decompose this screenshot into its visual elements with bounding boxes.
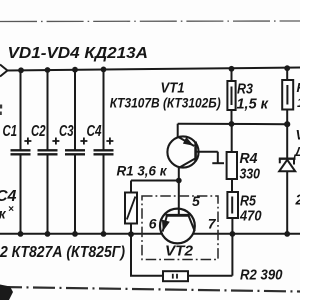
svg-text:6: 6	[149, 216, 157, 232]
svg-text:470: 470	[239, 208, 262, 225]
svg-text:1: 1	[297, 95, 300, 110]
svg-text:VD1-VD4 КД213А: VD1-VD4 КД213А	[8, 45, 149, 62]
svg-text:С4: С4	[87, 123, 102, 140]
svg-text:С2: С2	[31, 123, 46, 140]
svg-text:VT2: VT2	[165, 243, 194, 260]
svg-text:R1 3,6 к: R1 3,6 к	[117, 163, 168, 179]
svg-text:КТ3107В (КТ3102Б): КТ3107В (КТ3102Б)	[110, 95, 221, 111]
svg-text:С3: С3	[59, 123, 74, 140]
svg-text:R4: R4	[240, 150, 259, 167]
svg-text:к: к	[0, 206, 7, 222]
svg-text:С4: С4	[0, 188, 17, 205]
svg-text:5: 5	[192, 193, 200, 209]
svg-text:×: ×	[8, 204, 14, 215]
svg-text:R: R	[297, 80, 301, 95]
svg-text:2 КТ827А (КТ825Г): 2 КТ827А (КТ825Г)	[0, 244, 125, 261]
svg-text:Д: Д	[294, 144, 301, 159]
svg-text:С1: С1	[3, 123, 18, 140]
svg-text:V: V	[296, 128, 301, 143]
svg-text:2: 2	[295, 193, 301, 209]
svg-text:330: 330	[240, 166, 261, 183]
svg-text:R2 390: R2 390	[240, 267, 283, 284]
svg-text:1,5 к: 1,5 к	[237, 96, 270, 113]
svg-text:7: 7	[208, 215, 217, 231]
